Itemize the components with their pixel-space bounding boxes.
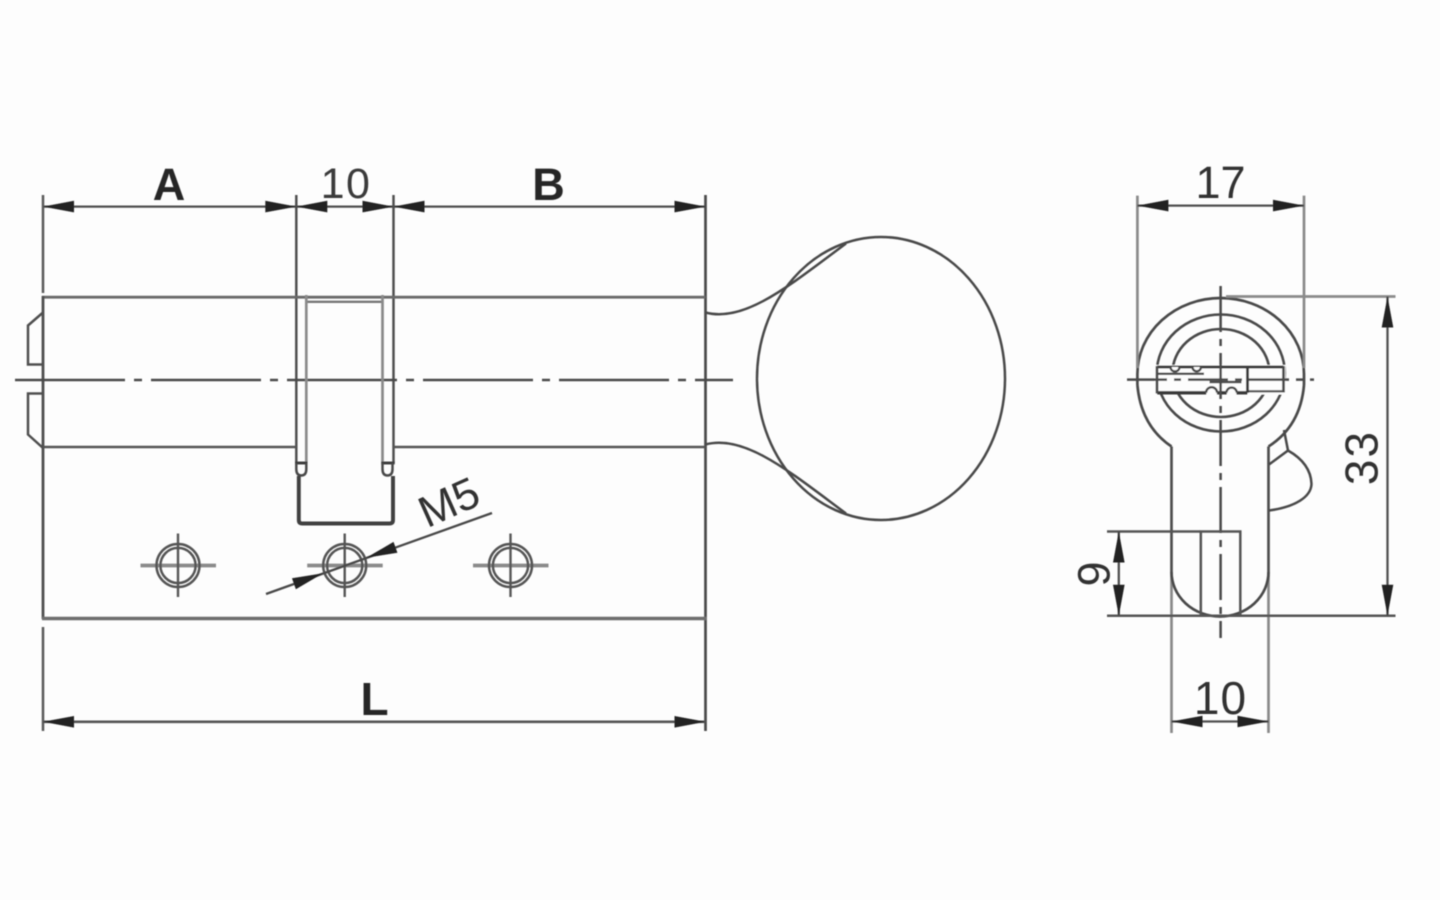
svg-text:L: L [360,673,388,725]
svg-text:A: A [153,159,186,210]
svg-text:10: 10 [1194,672,1247,724]
svg-text:M5: M5 [411,468,487,538]
svg-text:9: 9 [1069,561,1120,586]
svg-text:17: 17 [1195,157,1245,208]
svg-text:B: B [532,159,565,210]
svg-text:10: 10 [321,160,372,208]
svg-text:33: 33 [1336,430,1388,485]
